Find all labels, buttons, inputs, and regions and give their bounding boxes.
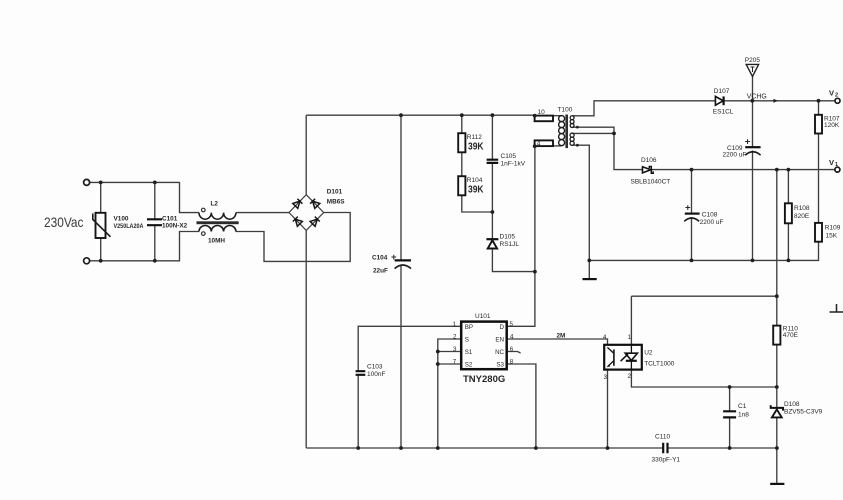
svg-text:VCHG: VCHG bbox=[747, 94, 767, 101]
svg-text:C104: C104 bbox=[372, 255, 388, 262]
svg-text:8: 8 bbox=[510, 359, 514, 366]
svg-text:1nF-1kV: 1nF-1kV bbox=[501, 161, 526, 168]
svg-text:D105: D105 bbox=[500, 234, 516, 241]
svg-text:C103: C103 bbox=[367, 364, 383, 371]
svg-text:C110: C110 bbox=[655, 434, 670, 441]
svg-text:10: 10 bbox=[538, 109, 546, 116]
svg-text:EN: EN bbox=[495, 336, 504, 343]
svg-text:C1: C1 bbox=[738, 403, 747, 410]
svg-text:+: + bbox=[745, 136, 751, 147]
svg-text:1: 1 bbox=[453, 321, 457, 328]
svg-text:+: + bbox=[685, 203, 691, 214]
svg-text:S2: S2 bbox=[465, 361, 473, 368]
svg-text:1n8: 1n8 bbox=[738, 412, 749, 419]
svg-text:100N-X2: 100N-X2 bbox=[162, 223, 188, 230]
svg-text:NC: NC bbox=[495, 349, 504, 356]
svg-text:1: 1 bbox=[835, 162, 838, 168]
svg-text:1: 1 bbox=[628, 334, 632, 341]
svg-text:22uF: 22uF bbox=[373, 268, 388, 275]
svg-text:4: 4 bbox=[510, 334, 514, 341]
svg-text:S3: S3 bbox=[496, 361, 504, 368]
svg-text:TNY280G: TNY280G bbox=[463, 374, 505, 385]
svg-text:2: 2 bbox=[628, 373, 632, 380]
svg-text:U2: U2 bbox=[644, 350, 653, 357]
svg-text:S: S bbox=[465, 336, 469, 343]
svg-text:BZV55-C3V9: BZV55-C3V9 bbox=[784, 409, 823, 416]
svg-text:SBLB1040CT: SBLB1040CT bbox=[631, 179, 671, 186]
svg-text:4: 4 bbox=[537, 140, 541, 147]
svg-text:D108: D108 bbox=[784, 401, 800, 408]
svg-text:TCLT1000: TCLT1000 bbox=[644, 361, 675, 368]
svg-text:39K: 39K bbox=[468, 141, 484, 153]
svg-text:2: 2 bbox=[453, 334, 457, 341]
svg-text:RS1JL: RS1JL bbox=[500, 241, 520, 248]
svg-text:D101: D101 bbox=[327, 189, 343, 196]
svg-text:C101: C101 bbox=[162, 216, 178, 223]
svg-text:D: D bbox=[500, 324, 505, 331]
svg-text:R109: R109 bbox=[825, 225, 841, 232]
svg-text:820E: 820E bbox=[794, 213, 810, 220]
svg-text:P205: P205 bbox=[745, 57, 761, 64]
svg-text:4: 4 bbox=[603, 334, 607, 341]
svg-text:120K: 120K bbox=[824, 122, 840, 129]
svg-text:15K: 15K bbox=[826, 233, 838, 240]
svg-text:10MH: 10MH bbox=[208, 238, 225, 245]
svg-text:C105: C105 bbox=[501, 153, 517, 160]
svg-text:MB6S: MB6S bbox=[327, 199, 345, 206]
svg-text:D106: D106 bbox=[641, 157, 657, 164]
svg-text:+: + bbox=[391, 252, 397, 263]
svg-text:2200 uF: 2200 uF bbox=[723, 152, 747, 159]
svg-text:2: 2 bbox=[835, 92, 838, 98]
svg-text:L2: L2 bbox=[211, 201, 219, 208]
svg-text:2200 uF: 2200 uF bbox=[700, 219, 724, 226]
svg-text:100nF: 100nF bbox=[367, 371, 385, 378]
svg-text:2M: 2M bbox=[557, 333, 566, 340]
svg-text:330pF-Y1: 330pF-Y1 bbox=[652, 457, 681, 464]
svg-text:3: 3 bbox=[604, 374, 608, 381]
svg-text:D107: D107 bbox=[714, 88, 730, 95]
svg-text:230Vac: 230Vac bbox=[44, 214, 84, 230]
svg-text:5: 5 bbox=[510, 321, 514, 328]
svg-text:3: 3 bbox=[453, 346, 457, 353]
svg-text:7: 7 bbox=[453, 359, 457, 366]
svg-text:R108: R108 bbox=[794, 205, 810, 212]
svg-text:39K: 39K bbox=[468, 184, 484, 196]
svg-text:V100: V100 bbox=[114, 216, 129, 223]
svg-text:ES1CL: ES1CL bbox=[713, 109, 734, 116]
svg-text:V250LA20A: V250LA20A bbox=[114, 223, 144, 230]
svg-text:470E: 470E bbox=[783, 332, 799, 339]
svg-text:C108: C108 bbox=[702, 212, 718, 219]
svg-text:BP: BP bbox=[465, 324, 473, 331]
svg-text:T100: T100 bbox=[558, 107, 573, 114]
svg-text:U101: U101 bbox=[475, 313, 491, 320]
svg-text:6: 6 bbox=[510, 346, 514, 353]
svg-text:S1: S1 bbox=[465, 349, 473, 356]
